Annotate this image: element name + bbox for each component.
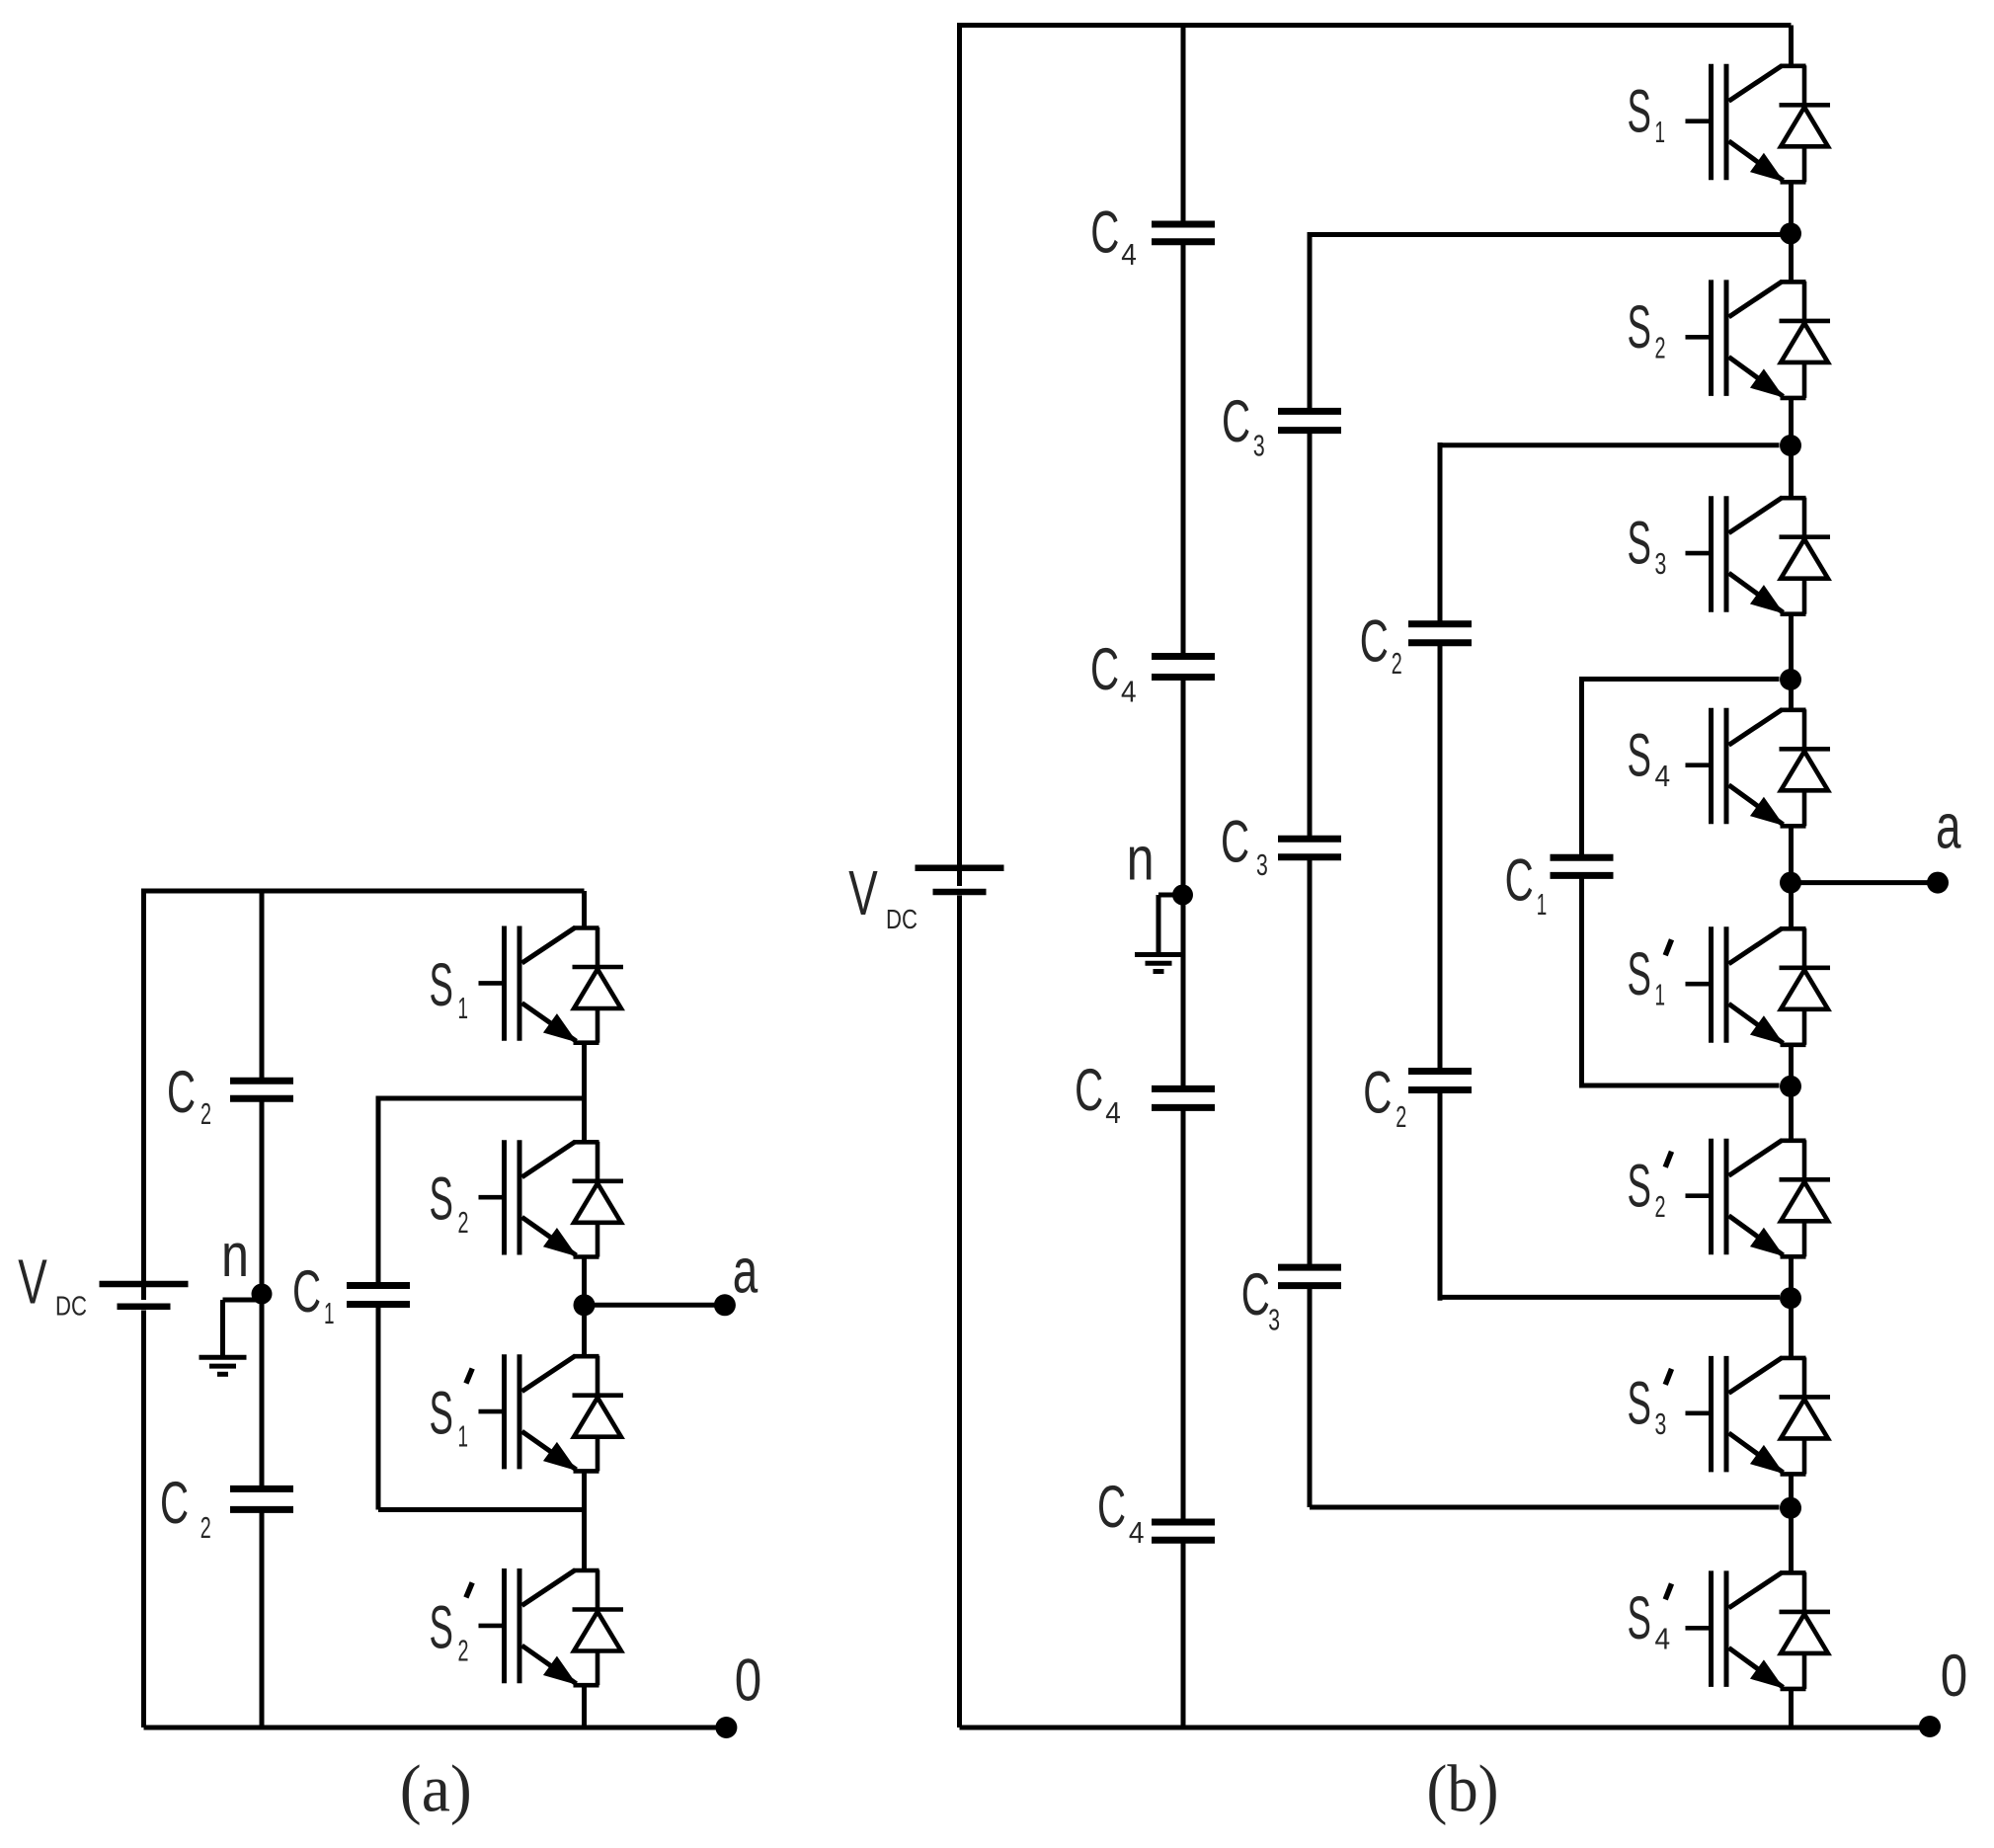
svg-text:S: S xyxy=(430,1593,453,1660)
svg-text:S: S xyxy=(430,1165,453,1233)
capacitor C3 (#2) of figure (b) xyxy=(1278,836,1341,843)
capacitor C2 (upper DC-link capacitor) of figure (a) xyxy=(230,1078,293,1085)
svg-text:V: V xyxy=(18,1245,47,1317)
svg-text:0: 0 xyxy=(735,1647,762,1714)
wire: collector stub from top rail to switch S1 xyxy=(582,891,587,928)
svg-text:C: C xyxy=(292,1258,321,1325)
wire: left vertical branch (V_DC source branch) of figure (b), upper segment xyxy=(957,23,962,886)
svg-text:1: 1 xyxy=(1537,887,1548,922)
switch S2 of figure (b) (IGBT with antiparallel diode) xyxy=(1686,280,1831,398)
svg-text:S: S xyxy=(1628,293,1651,361)
svg-text:(b): (b) xyxy=(1427,1751,1499,1826)
wire: C4 string vertical between C4 #1 and C4 #2 xyxy=(1181,242,1186,657)
voltage source V_DC (battery symbol) of figure (b) xyxy=(916,865,1004,872)
wire: flying-capacitor C1 branch vertical, lower segment xyxy=(376,1305,381,1510)
svg-text:1: 1 xyxy=(458,1419,469,1454)
switch S1' of figure (b) (IGBT with antiparallel diode) xyxy=(1686,926,1831,1045)
wire: flying-capacitor C1 top horizontal (to S1/S2 junction) xyxy=(378,1096,585,1101)
svg-text:2: 2 xyxy=(458,1634,469,1668)
svg-text:4: 4 xyxy=(1655,1621,1671,1655)
wire: left vertical branch (V_DC source branch), upper segment xyxy=(141,889,146,1301)
wire: C1 branch vertical, upper segment xyxy=(1579,677,1584,857)
junction dot: S1'/S2' junction (C1 bottom tap) xyxy=(1780,1076,1801,1097)
wire: S1 emitter down through S1/S2 junction (C3 top tap) xyxy=(1789,182,1794,281)
wire: C3 string vertical, segment above C3 #1 xyxy=(1308,232,1313,411)
svg-text:S: S xyxy=(1628,940,1651,1007)
switch S1' of figure (a) (IGBT with antiparallel diode) xyxy=(479,1354,624,1471)
wire: flying-capacitor C1 bottom horizontal (to S1'/S2' junction) xyxy=(378,1507,585,1512)
terminal a dot of figure (a) xyxy=(714,1294,736,1316)
svg-text:C: C xyxy=(1075,1057,1103,1123)
wire: C3 string top horizontal (to S1/S2 junction) xyxy=(1310,232,1781,237)
svg-text:S: S xyxy=(1628,1584,1651,1651)
wire: C4 string vertical, segment below C4 #4 xyxy=(1181,1540,1186,1727)
junction dot: S3'/S4' junction (C3 bottom tap) xyxy=(1780,1497,1801,1519)
svg-text:DC: DC xyxy=(55,1290,87,1321)
voltage source V_DC (battery symbol) of figure (a) xyxy=(100,1281,189,1288)
switch S1 of figure (a) (IGBT with antiparallel diode) xyxy=(479,926,624,1043)
wire: S2 emitter down through S2/S3 junction (C2 top tap) xyxy=(1789,398,1794,498)
capacitor C1 (flying capacitor) of figure (b) xyxy=(1551,854,1614,861)
capacitor C2 (top, #1) of figure (b) xyxy=(1408,620,1472,627)
svg-text:2: 2 xyxy=(200,1096,211,1131)
terminal 0 dot of figure (a) xyxy=(715,1717,737,1738)
capacitor C2 (lower DC-link capacitor) of figure (a) xyxy=(230,1486,293,1492)
svg-text:(a): (a) xyxy=(400,1751,472,1826)
capacitor C2 (bottom, #2) of figure (b) xyxy=(1408,1068,1472,1075)
wire: flying-capacitor C1 branch vertical, upper segment xyxy=(376,1096,381,1286)
wire: bottom DC rail of figure (b) xyxy=(960,1726,1931,1730)
wire: S3 emitter down through S3/S4 junction (C1 top tap) xyxy=(1789,614,1794,710)
svg-text:1: 1 xyxy=(1655,977,1666,1011)
svg-text:C: C xyxy=(1221,808,1249,874)
svg-text:S: S xyxy=(1628,1152,1651,1219)
capacitor C3 (bottom, #3) of figure (b) xyxy=(1278,1264,1341,1271)
wire: C2 string vertical, segment below C2 #2 xyxy=(1438,1090,1443,1301)
svg-text:C: C xyxy=(1363,1059,1392,1125)
switch S4 of figure (b) (IGBT with antiparallel diode) xyxy=(1686,708,1831,827)
svg-text:a: a xyxy=(733,1236,758,1307)
wire: C2 string vertical between C2 #1 and C2 #2 xyxy=(1438,643,1443,1072)
svg-text:C: C xyxy=(1097,1474,1126,1540)
wire: C4 string vertical between C4 #3 and C4 #4 xyxy=(1181,1107,1186,1522)
wire: C1 branch vertical, lower segment xyxy=(1579,875,1584,1087)
wire: C3 string vertical, segment below C3 #3 xyxy=(1308,1286,1313,1507)
wire: collector stub from top rail to switch S1 of figure (b) xyxy=(1789,26,1794,66)
wire: C3 string vertical between C3 #2 and C3 #3 xyxy=(1308,857,1313,1267)
svg-text:1: 1 xyxy=(1655,115,1666,149)
svg-text:4: 4 xyxy=(1129,1515,1145,1550)
svg-text:2: 2 xyxy=(1392,646,1402,681)
svg-text:S: S xyxy=(430,951,453,1018)
svg-text:4: 4 xyxy=(1105,1095,1121,1130)
svg-text:2: 2 xyxy=(200,1510,211,1545)
wire: C1 bottom horizontal (to S1'/S2' junction) xyxy=(1582,1084,1780,1088)
switch S2' of figure (b) (IGBT with antiparallel diode) xyxy=(1686,1139,1831,1257)
svg-text:4: 4 xyxy=(1121,237,1137,272)
wire: C1 top horizontal (to S3/S4 junction) xyxy=(1582,677,1780,682)
svg-text:2: 2 xyxy=(1655,1189,1666,1224)
terminal a dot of figure (b) xyxy=(1927,872,1949,894)
wire: S4 emitter down through node a junction xyxy=(1789,826,1794,928)
capacitor C1 (flying capacitor) of figure (a) xyxy=(347,1282,410,1289)
wire: bottom DC rail of figure (a) xyxy=(144,1726,727,1730)
svg-text:3: 3 xyxy=(1655,546,1667,581)
svg-text:2: 2 xyxy=(1396,1099,1406,1134)
switch S3 of figure (b) (IGBT with antiparallel diode) xyxy=(1686,496,1831,614)
svg-text:2: 2 xyxy=(1655,330,1666,364)
svg-text:C: C xyxy=(167,1059,196,1125)
capacitor C4 (#3) of figure (b) xyxy=(1152,1085,1215,1092)
wire: DC-link branch vertical, lower segment xyxy=(260,1509,265,1727)
svg-text:1: 1 xyxy=(458,991,469,1025)
wire: C2 string bottom horizontal (to S2'/S3' junction) xyxy=(1440,1295,1780,1300)
svg-text:C: C xyxy=(1090,200,1119,266)
wire: S2 emitter to S1' collector through node a xyxy=(582,1257,587,1357)
terminal 0 dot of figure (b) xyxy=(1919,1716,1941,1737)
svg-text:n: n xyxy=(221,1221,249,1290)
wire: output lead to terminal a of figure (a) xyxy=(585,1303,725,1308)
wire: output lead to terminal a of figure (b) xyxy=(1792,880,1939,885)
switch S2' of figure (a) (IGBT with antiparallel diode) xyxy=(479,1568,624,1685)
junction dot: S3/S4 junction (C1 top tap) xyxy=(1780,669,1801,690)
wire: C3 string bottom horizontal (to S3'/S4' junction) xyxy=(1310,1505,1780,1510)
wire: top DC rail of figure (a) xyxy=(144,889,585,894)
wire: S4' emitter to bottom rail of figure (b) xyxy=(1789,1689,1794,1727)
capacitor C4 (#2) of figure (b) xyxy=(1152,653,1215,660)
svg-text:S: S xyxy=(430,1380,453,1447)
wire: S1 emitter to S2 collector (C1 top tap junction) xyxy=(582,1043,587,1143)
wire: C2 string vertical, segment above C2 #1 xyxy=(1438,442,1443,624)
wire: C3 string vertical between C3 #1 and C3 #2 xyxy=(1308,431,1313,840)
junction dot: S2/S3 junction (C2 top tap) xyxy=(1780,435,1801,456)
switch S3' of figure (b) (IGBT with antiparallel diode) xyxy=(1686,1356,1831,1475)
svg-text:a: a xyxy=(1936,791,1961,862)
svg-text:S: S xyxy=(1628,1369,1651,1436)
junction dot: S2'/S3' junction (C2 bottom tap) xyxy=(1780,1287,1801,1309)
svg-text:2: 2 xyxy=(458,1205,469,1240)
wire: C2 string top horizontal (to S2/S3 junction) xyxy=(1440,442,1780,447)
svg-text:C: C xyxy=(1360,608,1389,675)
switch S2 of figure (a) (IGBT with antiparallel diode) xyxy=(479,1140,624,1256)
capacitor C3 (top, #1) of figure (b) xyxy=(1278,408,1341,415)
switch S1 of figure (b) (IGBT with antiparallel diode) xyxy=(1686,64,1831,183)
node n junction dot xyxy=(252,1284,273,1305)
svg-text:DC: DC xyxy=(886,904,917,934)
svg-text:3: 3 xyxy=(1268,1303,1280,1337)
wire: left vertical branch, lower segment xyxy=(141,1311,146,1728)
wire: S2' emitter down through S2'/S3' junction (C2 bottom tap) xyxy=(1789,1256,1794,1358)
svg-text:S: S xyxy=(1628,510,1651,577)
wire: C4 string vertical, segment above C4 #1 xyxy=(1181,23,1186,224)
wire: C4 string vertical between C4 #2 and C4 #3 xyxy=(1181,678,1186,1089)
wire: S1' emitter to S2' collector (C1 bottom tap junction) xyxy=(582,1471,587,1570)
wire: top DC rail of figure (b) xyxy=(960,23,1792,28)
ground symbol at node n of figure (a) xyxy=(223,1298,263,1303)
svg-text:4: 4 xyxy=(1121,675,1137,709)
wire: DC-link branch between C2 capacitors xyxy=(260,1098,265,1488)
svg-text:1: 1 xyxy=(324,1296,335,1330)
svg-text:C: C xyxy=(1090,636,1119,702)
wire: S2' emitter to bottom rail xyxy=(582,1685,587,1727)
node a junction dot of figure (a) xyxy=(574,1294,596,1316)
svg-text:S: S xyxy=(1628,77,1651,144)
junction dot: S1/S2 junction (C3 top tap) xyxy=(1780,222,1801,244)
svg-text:3: 3 xyxy=(1655,1406,1667,1441)
svg-text:C: C xyxy=(160,1470,189,1536)
svg-text:4: 4 xyxy=(1655,759,1671,793)
wire: S3' emitter down through S3'/S4' junction (C3 bottom tap) xyxy=(1789,1474,1794,1572)
svg-text:C: C xyxy=(1241,1261,1270,1327)
svg-text:3: 3 xyxy=(1253,428,1265,462)
svg-text:0: 0 xyxy=(1941,1643,1968,1709)
wire: DC-link branch vertical (C2 string), upper segment xyxy=(260,889,265,1082)
wire: S1' emitter down through S1'/S2' junction (C1 bottom tap) xyxy=(1789,1045,1794,1141)
capacitor C4 (bottom, #4) of figure (b) xyxy=(1152,1519,1215,1526)
svg-text:V: V xyxy=(848,857,878,928)
wire: left vertical branch of figure (b), lower segment xyxy=(957,896,962,1728)
svg-text:n: n xyxy=(1127,825,1155,894)
svg-text:3: 3 xyxy=(1256,847,1268,882)
switch S4' of figure (b) (IGBT with antiparallel diode) xyxy=(1686,1570,1831,1689)
svg-text:S: S xyxy=(1628,721,1651,788)
svg-text:C: C xyxy=(1505,847,1534,914)
svg-text:C: C xyxy=(1222,388,1250,454)
ground symbol at node n of figure (b) xyxy=(1158,893,1183,898)
node n junction dot of figure (b) xyxy=(1172,885,1193,906)
junction dot: node a junction xyxy=(1780,872,1801,894)
capacitor C4 (top, #1) of figure (b) xyxy=(1152,221,1215,228)
